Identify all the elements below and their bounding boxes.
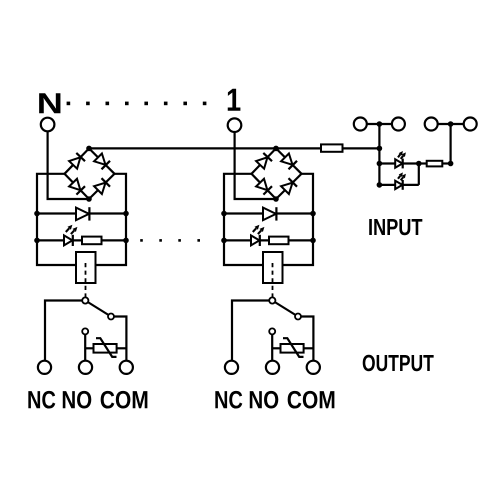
LED L2 (251, 235, 259, 245)
bridge B2 diode top-right (281, 154, 292, 165)
bridge B1 diode top-right (94, 154, 105, 165)
wire: common AC line to input network (89, 147, 321, 149)
wire: R4 leads (419, 162, 427, 164)
wire: LED row ch1 (37, 239, 126, 241)
LED L3 arrows (398, 154, 400, 157)
wire: terminal to bridge B2 bottom (net AC2) (235, 125, 276, 200)
dotted line N to 1 (67, 102, 71, 106)
input terminal A1 (354, 118, 367, 131)
LED L1 (64, 235, 72, 245)
terminal N circle (41, 118, 55, 132)
node: input junction B (448, 121, 454, 127)
mechanical link K1 (dashed) (85, 263, 87, 297)
LED L2 arrows (253, 228, 256, 232)
varistor RV2 stroke (283, 338, 304, 357)
wire: LED row 2 input (379, 184, 418, 186)
wire: LED right vertical (418, 164, 420, 185)
varistor RV2 body (281, 344, 304, 353)
label 1 (228, 89, 241, 111)
switch SW1 pivot circle (82, 297, 88, 303)
terminal NC ch1 (38, 361, 51, 374)
terminal COM ch1 (120, 361, 133, 374)
bridge B1 diode top-left (69, 157, 80, 168)
bridge B1 diode bottom-left (69, 179, 80, 190)
diode D1 (76, 208, 89, 221)
switch SW2 pivot circle (269, 297, 275, 303)
label N (39, 93, 60, 113)
varistor RV1 body (94, 344, 117, 353)
wire: pivot to NC rail ch2 (232, 301, 272, 368)
relay coil K2 (263, 252, 283, 283)
relay coil K1 (76, 252, 96, 283)
wire: input junction B up (450, 124, 452, 164)
terminal 1 circle (228, 118, 242, 132)
wire: R3 to input junction (343, 147, 380, 149)
wire: input pair B (431, 123, 470, 125)
switch SW1 NO circle (82, 328, 88, 334)
terminal NO ch1 (79, 361, 92, 374)
node: LED row right ch2 (310, 238, 316, 244)
LED L4 (395, 181, 402, 189)
label NC ch1 (28, 391, 55, 409)
node: LED row left ch2 (221, 238, 227, 244)
wire: diode row ch2 (224, 212, 313, 214)
node: LED row right ch1 (123, 238, 129, 244)
bridge B2 diode bottom-left (256, 179, 267, 190)
resistor R4 (427, 161, 443, 167)
diode D2 (263, 208, 276, 221)
node: R4 right (448, 161, 454, 167)
wire: arm contact to COM rail ch1 (111, 317, 126, 368)
node: diode row right ch2 (310, 211, 316, 217)
label COM ch2 (288, 391, 335, 409)
input terminal B1 (425, 118, 438, 131)
terminal NO ch2 (266, 361, 279, 374)
wire: terminal to bridge B1 bottom (net AC1) (48, 125, 89, 200)
label NC ch2 (215, 391, 242, 409)
node: diode row left ch1 (34, 211, 40, 217)
node: LED row left ch1 (34, 238, 40, 244)
label INPUT (369, 219, 422, 235)
resistor R1 (82, 237, 102, 245)
node: LED2 left (377, 182, 383, 188)
resistor R3 (321, 144, 343, 151)
wire: right rail ch1 (96, 174, 127, 265)
node: input junction A (377, 121, 383, 127)
switch SW2 NO circle (269, 328, 275, 334)
node: diode row right ch1 (123, 211, 129, 217)
dotted line between channels (140, 239, 143, 242)
terminal NC ch2 (225, 361, 238, 374)
node: diode row left ch2 (221, 211, 227, 217)
input terminal B2 (464, 118, 477, 131)
node: bridge B1 top vertex (86, 146, 92, 152)
switch SW1 contact circle (108, 314, 114, 320)
LED L4 arrows (398, 176, 400, 179)
bridge B2 diode bottom-right (281, 183, 292, 194)
wire: LED row 1 input (379, 162, 418, 164)
wire: diode row ch1 (37, 212, 126, 214)
switch SW2 arm (272, 301, 298, 317)
wire: input pair A (360, 123, 398, 125)
wire: input junction A down (378, 124, 380, 185)
LED L1 arrows (66, 228, 69, 232)
varistor RV1 stroke (96, 338, 117, 357)
switch SW1 arm (85, 301, 111, 317)
label NO ch2 (250, 391, 279, 409)
wire: NO branch ch1 (84, 331, 86, 367)
node: AC line junction A (377, 146, 383, 152)
label OUTPUT (363, 355, 434, 371)
node: bridge B2 bottom vertex (273, 196, 279, 202)
wire: varistor taps ch1 (85, 347, 93, 349)
node: LED1 left (377, 161, 383, 167)
node: bridge B2 top vertex (273, 146, 279, 152)
bridge B2 diode top-left (256, 157, 267, 168)
resistor R2 (269, 237, 289, 245)
label COM ch1 (101, 391, 148, 409)
switch SW2 contact circle (295, 314, 301, 320)
wire: left rail ch2 (224, 174, 263, 265)
bridge B1 diamond edges (65, 148, 115, 199)
label NO ch1 (63, 391, 92, 409)
wire: pivot to NC rail ch1 (45, 301, 85, 368)
wire: varistor taps ch2 (272, 347, 280, 349)
wire: arm contact to COM rail ch2 (298, 317, 313, 368)
wire: NO branch ch2 (271, 331, 273, 367)
wire: LED row ch2 (224, 239, 313, 241)
node: LED right (416, 161, 422, 167)
LED L3 (395, 159, 402, 167)
wire: right rail ch2 (283, 174, 314, 265)
bridge B1 diode bottom-right (94, 183, 105, 194)
input terminal A2 (392, 118, 405, 131)
mechanical link K2 (dashed) (272, 263, 274, 297)
bridge B2 diamond edges (252, 148, 302, 199)
node: bridge B1 bottom vertex (86, 196, 92, 202)
terminal COM ch2 (307, 361, 320, 374)
wire: left rail ch1 (37, 174, 76, 265)
